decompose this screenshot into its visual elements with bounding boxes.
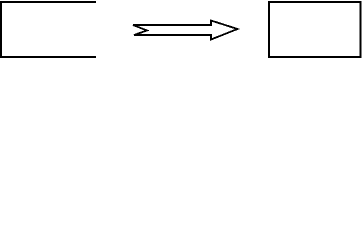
left box (rectangle open on its right side) xyxy=(1,2,96,57)
right box xyxy=(269,2,361,57)
arrow (right-pointing outline block arrow with chevron tail) xyxy=(133,21,238,40)
